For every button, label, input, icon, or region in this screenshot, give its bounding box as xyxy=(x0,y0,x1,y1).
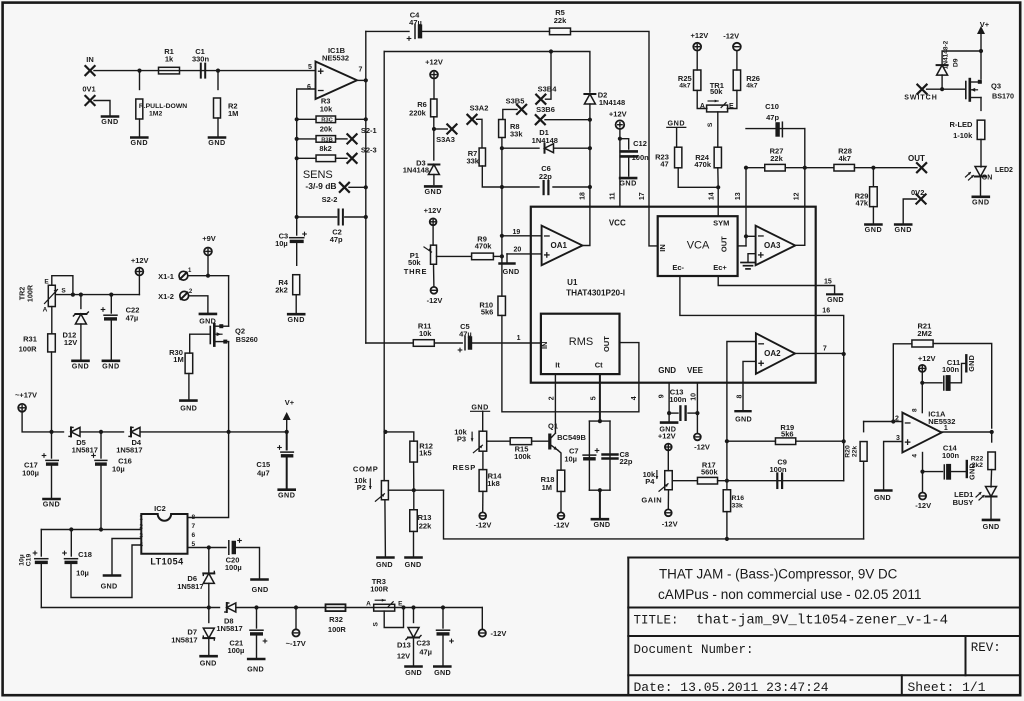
ground below R13 xyxy=(406,556,422,559)
svg-text:GND: GND xyxy=(894,225,911,234)
svg-text:D13: D13 xyxy=(397,641,411,650)
svg-text:GND: GND xyxy=(101,117,118,126)
resistor R10 5k6 xyxy=(498,296,506,315)
ground below X1-2 xyxy=(200,313,216,316)
diode D7 1N5817 xyxy=(208,608,210,623)
svg-text:14: 14 xyxy=(708,192,715,200)
svg-text:2M2: 2M2 xyxy=(917,329,932,338)
wire TR2 wiper xyxy=(55,294,139,296)
zener diode D12 12V xyxy=(80,295,82,309)
node S3B4 branch xyxy=(549,49,553,53)
svg-text:V+: V+ xyxy=(285,398,295,407)
svg-text:REV:: REV: xyxy=(971,641,1001,655)
svg-text:BS170: BS170 xyxy=(992,92,1014,101)
svg-text:1N5817: 1N5817 xyxy=(171,636,197,645)
power -12V below IC1A xyxy=(919,493,926,500)
svg-text:2: 2 xyxy=(549,396,556,400)
ground at IC2 pin 3 xyxy=(104,574,120,577)
svg-text:1M2: 1M2 xyxy=(149,111,162,118)
svg-text:GND: GND xyxy=(43,500,60,509)
svg-text:S2-1: S2-1 xyxy=(361,126,377,135)
svg-text:TITLE:: TITLE: xyxy=(634,614,679,628)
ground below C12 xyxy=(620,177,636,180)
svg-text:GND: GND xyxy=(180,404,197,413)
svg-text:Ct: Ct xyxy=(595,360,603,369)
diode D5 1N5817 xyxy=(71,427,80,436)
wire P1 wiper to R9 xyxy=(437,255,472,257)
svg-text:5: 5 xyxy=(591,396,598,400)
resistor R.PULL-DOWN 1M2 xyxy=(139,71,141,90)
resistor R31 100R xyxy=(51,307,53,334)
resistor R13 22k xyxy=(413,490,415,510)
capacitor C21 100u xyxy=(256,608,258,629)
resistor R32 100R xyxy=(326,604,346,611)
capacitor C5 47u polarized xyxy=(464,336,466,350)
svg-text:100R: 100R xyxy=(370,585,389,594)
wire R8 down the S3 bus xyxy=(501,139,503,297)
svg-text:4k7: 4k7 xyxy=(679,83,691,90)
power input ~-17V xyxy=(295,608,297,630)
svg-text:1: 1 xyxy=(944,425,948,432)
VCA block xyxy=(658,216,738,276)
capacitor C8 22p xyxy=(603,453,618,455)
wire IC2 pin2 bus xyxy=(41,529,141,531)
svg-text:1N4148: 1N4148 xyxy=(532,136,558,145)
svg-text:47µ: 47µ xyxy=(126,313,139,322)
svg-text:47µ: 47µ xyxy=(409,18,422,27)
wire OA3 output to pin 12 xyxy=(795,244,805,246)
wire IC1A output node xyxy=(942,431,992,433)
svg-text:C10: C10 xyxy=(765,102,779,111)
svg-text:20k: 20k xyxy=(320,125,333,134)
capacitor C18 10u xyxy=(70,530,72,557)
svg-text:4µ7: 4µ7 xyxy=(257,468,270,477)
potentiometer P1 50k xyxy=(431,245,437,264)
ground below C17 xyxy=(44,498,60,501)
capacitor C11 100n xyxy=(943,376,945,390)
svg-text:S: S xyxy=(707,122,714,127)
wire TR1 wiper to R24 xyxy=(717,112,719,147)
wire OA3 feedback loop xyxy=(745,168,747,246)
power -12V below R14 xyxy=(479,512,486,519)
node junction R1 left xyxy=(137,69,141,73)
svg-text:1N5817: 1N5817 xyxy=(177,582,203,591)
svg-text:13: 13 xyxy=(735,192,742,200)
diode D2 1N4148 xyxy=(584,94,595,104)
resistor R1 xyxy=(159,67,180,74)
wire IC1A minus pin 2 xyxy=(864,421,903,423)
svg-text:100n: 100n xyxy=(669,395,687,404)
resistor R5 22k xyxy=(550,28,571,35)
wire IC2 pin 5 to C20 xyxy=(188,547,227,549)
wire P1 to -12V xyxy=(433,264,435,287)
svg-text:1M: 1M xyxy=(173,355,183,364)
svg-text:0V1: 0V1 xyxy=(82,85,95,94)
svg-text:7: 7 xyxy=(359,67,363,74)
RMS It wire pin 2 xyxy=(554,374,556,433)
svg-text:U1: U1 xyxy=(567,278,578,287)
resistor R8 33k xyxy=(499,120,506,138)
svg-text:S3B4: S3B4 xyxy=(538,85,558,94)
svg-text:SYM: SYM xyxy=(713,218,729,227)
svg-text:10µ: 10µ xyxy=(19,554,26,566)
feedback resistor R3 10k xyxy=(295,117,299,121)
svg-text:12: 12 xyxy=(794,192,801,200)
svg-text:D9: D9 xyxy=(953,58,960,67)
switch contact S2-3 xyxy=(347,154,356,163)
svg-text:Document Number:: Document Number: xyxy=(634,643,754,657)
wire C16 to IC2 bus xyxy=(100,466,102,530)
wire P3 to R14 xyxy=(482,451,484,469)
ground right of C20 xyxy=(252,578,268,581)
resistor R22 2k2 xyxy=(991,432,993,442)
svg-text:560k: 560k xyxy=(701,467,719,476)
wire S3 network top rail xyxy=(384,52,590,93)
svg-text:GND: GND xyxy=(619,179,636,188)
svg-text:-12V: -12V xyxy=(554,521,570,530)
resistor R12 1k5 xyxy=(383,430,387,434)
svg-text:5k6: 5k6 xyxy=(481,308,494,317)
svg-text:220k: 220k xyxy=(409,109,427,118)
LED LED2 ON xyxy=(975,167,986,177)
svg-text:33k: 33k xyxy=(510,130,523,139)
svg-text:47p: 47p xyxy=(766,113,779,122)
svg-text:100n: 100n xyxy=(942,451,960,460)
switch contact SWITCH xyxy=(917,85,926,94)
wire V+ to Q3 drain xyxy=(980,34,982,79)
svg-text:E: E xyxy=(44,278,49,285)
svg-text:12V: 12V xyxy=(397,651,410,660)
svg-text:10µ: 10µ xyxy=(564,454,577,463)
svg-text:1: 1 xyxy=(517,335,521,342)
svg-text:1N4148: 1N4148 xyxy=(403,165,429,174)
capacitor C15 4u7 xyxy=(286,432,288,450)
feedback resistor 20k xyxy=(295,137,299,141)
svg-text:-12V: -12V xyxy=(694,443,710,452)
wire Q2 source down to rail xyxy=(228,342,230,432)
svg-text:GND: GND xyxy=(208,138,225,147)
svg-text:Date: 13.05.2011 23:47:24: Date: 13.05.2011 23:47:24 xyxy=(634,680,829,695)
wire P2 wiper to R12 R13 node xyxy=(388,489,443,491)
svg-text:OUT: OUT xyxy=(602,336,611,352)
svg-text:E: E xyxy=(729,103,734,110)
wire pin7 node down to R19 and C9 xyxy=(843,354,845,481)
wire C10 right vertical pin 12 xyxy=(804,129,806,246)
power -12V below P1 xyxy=(431,287,438,294)
svg-text:OA2: OA2 xyxy=(764,349,781,358)
resistor R2 xyxy=(217,71,219,90)
ground below LED2 xyxy=(973,196,989,199)
svg-text:5k6: 5k6 xyxy=(781,430,794,439)
wire Q2 gate to R30 xyxy=(190,334,211,353)
zener diode D13 12V xyxy=(413,608,415,623)
ground below R29 xyxy=(865,223,881,226)
svg-text:GND: GND xyxy=(972,197,989,206)
wire op-amp output to C4 xyxy=(366,30,409,32)
svg-text:7: 7 xyxy=(823,346,827,353)
pin 9 wire xyxy=(668,383,670,422)
resistor R-LED 1-10k xyxy=(977,120,985,139)
capacitor C16 10u xyxy=(100,432,102,458)
pin 15 wire Ec+ to GND xyxy=(718,276,834,294)
svg-text:2k2: 2k2 xyxy=(972,462,984,469)
svg-text:GND: GND xyxy=(72,361,89,370)
svg-text:+12V: +12V xyxy=(609,109,627,118)
svg-text:R16: R16 xyxy=(732,495,745,502)
op-amp OA1 xyxy=(542,226,583,266)
svg-text:S2-2: S2-2 xyxy=(322,195,338,204)
resistor R24 470k xyxy=(714,147,721,168)
svg-text:C12: C12 xyxy=(633,139,647,148)
wire +12V to U1 pin 11 xyxy=(619,129,621,207)
switch contact S3A3 xyxy=(447,124,456,133)
diode D4 1N5817 xyxy=(131,427,140,436)
svg-text:GND: GND xyxy=(658,366,676,375)
diode D9 1N4148-2 xyxy=(942,51,981,64)
svg-text:1N5817: 1N5817 xyxy=(72,446,98,455)
negative rail continues xyxy=(237,607,482,609)
svg-text:X1-1: X1-1 xyxy=(158,272,174,281)
svg-text:R.PULL-DOWN: R.PULL-DOWN xyxy=(139,103,187,110)
svg-text:NE5532: NE5532 xyxy=(928,417,955,426)
svg-text:BC549B: BC549B xyxy=(557,433,586,442)
node SYM junction xyxy=(716,185,720,189)
svg-text:50k: 50k xyxy=(408,258,421,267)
svg-text:C18: C18 xyxy=(78,550,92,559)
svg-text:GND: GND xyxy=(252,585,269,594)
svg-text:470k: 470k xyxy=(694,160,712,169)
ground below P2 xyxy=(377,556,393,559)
capacitor C12 100n xyxy=(620,139,629,149)
svg-text:100µ: 100µ xyxy=(227,646,244,655)
svg-text:GND: GND xyxy=(735,414,752,423)
wire to ground below C7 C8 xyxy=(599,490,601,518)
svg-text:50k: 50k xyxy=(710,87,723,96)
svg-text:11: 11 xyxy=(610,192,617,200)
wire +12V to pin 8 and C11 xyxy=(921,372,923,413)
wire VCA OUT to OA3 loop xyxy=(738,245,746,247)
svg-text:GND: GND xyxy=(247,665,264,674)
switch contact S3B6 xyxy=(536,115,545,124)
svg-text:A: A xyxy=(366,600,371,607)
svg-text:330n: 330n xyxy=(192,55,210,64)
svg-text:GND: GND xyxy=(865,225,882,234)
svg-text:1M: 1M xyxy=(542,483,552,492)
svg-text:+12V: +12V xyxy=(131,256,149,265)
transistor Q2 BS260 xyxy=(209,327,211,344)
resistor R18 1M xyxy=(557,470,565,491)
ground below C23 xyxy=(434,665,450,668)
svg-text:GND: GND xyxy=(503,267,520,276)
svg-text:VEE: VEE xyxy=(687,366,704,375)
svg-text:S: S xyxy=(373,621,380,626)
capacitor C4 47u polarized xyxy=(414,24,416,38)
svg-text:LT1054: LT1054 xyxy=(150,556,183,566)
svg-text:1N4148-2: 1N4148-2 xyxy=(943,40,950,69)
wire IC2 pin3 to ground xyxy=(112,539,141,575)
svg-text:LED2: LED2 xyxy=(995,167,1013,174)
svg-text:22k: 22k xyxy=(770,154,783,163)
svg-text:5: 5 xyxy=(308,64,312,71)
svg-text:COMP: COMP xyxy=(353,465,379,474)
svg-text:R3B: R3B xyxy=(321,137,333,143)
op-amp IC1B NE5532 xyxy=(316,62,358,100)
RMS OUT wire pin 4 xyxy=(502,315,639,411)
svg-text:8: 8 xyxy=(737,394,744,398)
capacitor C22 47u xyxy=(110,295,112,313)
svg-text:GAIN: GAIN xyxy=(641,496,662,505)
wire D2 vertical to pin 18 xyxy=(589,104,591,207)
svg-text:-12V: -12V xyxy=(723,32,739,41)
svg-text:-12V: -12V xyxy=(476,521,492,530)
wire to VCA SYM pin 14 xyxy=(717,187,719,216)
capacitor C7 10u xyxy=(583,454,596,456)
feedback resistor 8k2 xyxy=(295,156,299,160)
svg-text:100n: 100n xyxy=(769,465,787,474)
svg-text:8: 8 xyxy=(911,408,918,412)
svg-text:22k: 22k xyxy=(419,521,432,530)
wire 0V1 to ground xyxy=(94,101,110,116)
ground at pin 8 xyxy=(736,410,751,412)
resistor R15 100k xyxy=(510,438,531,445)
resistor R9 470k xyxy=(472,253,494,260)
svg-text:P4: P4 xyxy=(645,477,655,486)
svg-text:100µ: 100µ xyxy=(225,563,242,572)
svg-text:RESP: RESP xyxy=(452,463,476,472)
capacitor C3 10u xyxy=(296,217,298,235)
svg-text:1N5817: 1N5817 xyxy=(116,446,142,455)
svg-text:S: S xyxy=(61,287,66,294)
svg-text:22p: 22p xyxy=(620,457,633,466)
svg-text:10µ: 10µ xyxy=(275,239,288,248)
svg-text:1k8: 1k8 xyxy=(487,479,500,488)
wire sidechain bus to right xyxy=(444,490,864,539)
svg-text:100µ: 100µ xyxy=(22,468,39,477)
svg-text:GND: GND xyxy=(102,361,119,370)
svg-text:Q3: Q3 xyxy=(991,82,1001,91)
capacitor C23 47u xyxy=(442,608,444,629)
wire P2 bottom to ground xyxy=(384,500,387,557)
negative rail wire xyxy=(41,607,219,609)
wire IC1A plus pin 3 to ground xyxy=(884,442,903,490)
transistor Q1 BC549B xyxy=(548,434,551,450)
svg-text:S3B5: S3B5 xyxy=(506,96,525,105)
svg-text:1k5: 1k5 xyxy=(419,449,432,458)
ground below C7 C8 xyxy=(592,518,608,521)
switch contact S2-1 xyxy=(347,134,356,143)
svg-text:9: 9 xyxy=(659,394,666,398)
RMS block xyxy=(541,314,620,374)
wire C9 line xyxy=(727,480,844,482)
svg-text:-3/-9 dB: -3/-9 dB xyxy=(305,181,336,191)
svg-text:47p: 47p xyxy=(330,235,343,244)
svg-text:NE5532: NE5532 xyxy=(322,54,349,63)
svg-text:VCC: VCC xyxy=(609,219,626,228)
wire C5 to RMS pin 1 xyxy=(472,342,541,344)
wire sidechain R11 line xyxy=(366,342,413,344)
wire op-amp output node xyxy=(357,79,366,81)
wire P4 wiper to R17 xyxy=(672,480,696,482)
resistor R14 1k8 xyxy=(479,470,487,492)
svg-text:100R: 100R xyxy=(328,625,347,634)
wire X1-1 to Q2 drain xyxy=(228,276,230,327)
svg-text:Ec-: Ec- xyxy=(672,263,684,272)
svg-text:1k: 1k xyxy=(165,55,174,64)
wire Q3 source to R-LED xyxy=(980,98,982,111)
switch contact S2-2 xyxy=(340,183,349,192)
svg-text:BUSY: BUSY xyxy=(953,498,974,507)
switch contact S3B4 xyxy=(536,95,545,104)
svg-text:10µ: 10µ xyxy=(76,569,89,578)
capacitor C2 47p xyxy=(295,215,299,219)
svg-text:X1-2: X1-2 xyxy=(158,292,174,301)
svg-text:+12V: +12V xyxy=(425,58,443,67)
wire R5 to pin 17 xyxy=(571,31,658,246)
resistor R29 47k xyxy=(872,168,874,187)
svg-text:GND: GND xyxy=(405,668,422,677)
wire P3 wiper to R15 xyxy=(487,440,510,442)
svg-text:S3B6: S3B6 xyxy=(536,105,555,114)
svg-text:Q1: Q1 xyxy=(548,421,558,430)
svg-text:OUT: OUT xyxy=(908,154,925,163)
ground below pin 9 xyxy=(661,421,677,424)
node S3A3 branch xyxy=(432,127,436,131)
capacitor C10 47p xyxy=(775,122,779,137)
ground at pin 3 xyxy=(875,489,891,492)
svg-text:RMS: RMS xyxy=(569,336,593,348)
svg-text:1M: 1M xyxy=(228,109,238,118)
svg-text:100R: 100R xyxy=(19,345,38,354)
wire Q1 emitter to R18 xyxy=(558,450,561,470)
svg-text:+12V: +12V xyxy=(424,206,442,215)
wire C4 to R5 xyxy=(422,30,550,32)
svg-text:22k: 22k xyxy=(554,16,567,25)
svg-text:47µ: 47µ xyxy=(419,648,432,657)
ground below D13 xyxy=(406,665,422,668)
resistor R27 22k xyxy=(744,166,748,170)
wire pin 13 to OA3 minus xyxy=(744,234,748,238)
resistor R23 47 xyxy=(675,147,682,168)
wire R20 bottom to bus xyxy=(863,461,865,539)
svg-text:C23: C23 xyxy=(416,639,430,648)
capacitor C20 100u xyxy=(228,541,230,555)
capacitor C13 100n xyxy=(669,412,678,414)
resistor R26 4k7 xyxy=(733,70,740,90)
ground below pull-down xyxy=(131,136,147,139)
wire C14 to rotated ground xyxy=(951,469,967,472)
wire IC1A pin 4 to C14 and -12V xyxy=(922,453,924,493)
svg-text:GND: GND xyxy=(200,659,217,668)
svg-text:ON: ON xyxy=(982,175,993,182)
svg-text:R-LED: R-LED xyxy=(950,120,973,129)
resistor R28 4k7 xyxy=(834,164,855,171)
svg-text:Sheet: 1/1: Sheet: 1/1 xyxy=(908,680,986,695)
svg-text:GND: GND xyxy=(101,582,118,591)
svg-text:1-10k: 1-10k xyxy=(953,131,973,140)
svg-text:VCA: VCA xyxy=(687,239,710,251)
svg-text:Ec+: Ec+ xyxy=(713,263,727,272)
svg-text:GND: GND xyxy=(405,560,422,569)
svg-text:THAT4301P20-I: THAT4301P20-I xyxy=(566,288,625,297)
svg-text:4k7: 4k7 xyxy=(838,154,851,163)
ground below C22 xyxy=(103,359,119,362)
svg-text:THRE: THRE xyxy=(404,267,428,276)
svg-text:1: 1 xyxy=(139,515,143,522)
resistor R11 10k xyxy=(413,340,434,347)
power -12V below R18 xyxy=(558,512,565,519)
ground below R30 xyxy=(180,399,196,402)
resistor R6 220k xyxy=(431,99,437,117)
